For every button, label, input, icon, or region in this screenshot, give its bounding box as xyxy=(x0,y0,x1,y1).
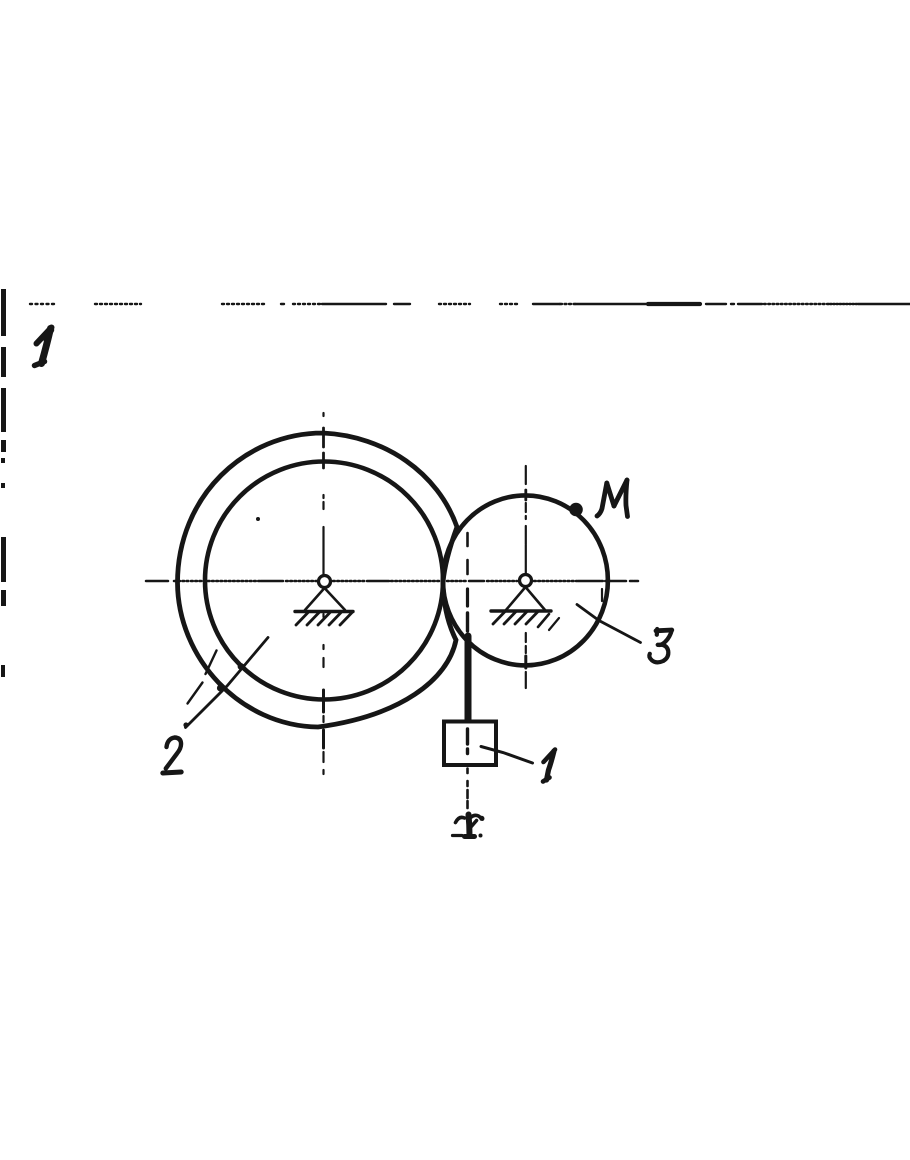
pulley 2 outer rim xyxy=(178,433,458,727)
ink blob at leader 2 x inner rim xyxy=(238,663,245,670)
horizontal center axis xyxy=(146,580,638,583)
rope hidden part (dash-dot inside wheel 3) xyxy=(466,533,469,631)
point M on wheel 3 xyxy=(569,503,583,517)
tick on rim at leader 3 crossing xyxy=(601,589,603,601)
tick near leader 2 start xyxy=(188,683,203,704)
ink foot at leader 2 start xyxy=(183,722,188,727)
label r (axis) xyxy=(456,815,483,837)
axis dash inside block xyxy=(466,729,469,744)
pin support of pulley 2 xyxy=(295,576,353,626)
stray speck inside pulley xyxy=(256,517,260,521)
load block 1 xyxy=(444,722,496,766)
leader to label 2 xyxy=(186,638,269,728)
label M xyxy=(597,480,628,517)
vertical center axis of wheel 3 xyxy=(525,466,527,688)
tick on outer rim at leader 2 crossing xyxy=(206,651,217,675)
leader to label 3 xyxy=(577,605,641,643)
axis below block xyxy=(466,769,469,809)
pin support of wheel 3 xyxy=(491,575,559,631)
pulley 2 inner rim xyxy=(205,462,443,700)
vertical center axis of pulley 2 xyxy=(322,413,324,774)
top scan rule xyxy=(30,303,910,305)
baseline dashes near label r xyxy=(453,834,463,837)
wheel 3 xyxy=(443,495,608,665)
left scan border marks xyxy=(1,289,6,677)
label 2 xyxy=(163,738,181,774)
leader to label 1 xyxy=(481,747,533,764)
label 1 (load) xyxy=(543,750,555,782)
rope (solid) xyxy=(465,636,472,723)
figure number 1 (top-left) xyxy=(35,328,52,366)
ink blob at leader 2 x outer rim xyxy=(217,684,224,691)
label 3 xyxy=(649,629,671,662)
